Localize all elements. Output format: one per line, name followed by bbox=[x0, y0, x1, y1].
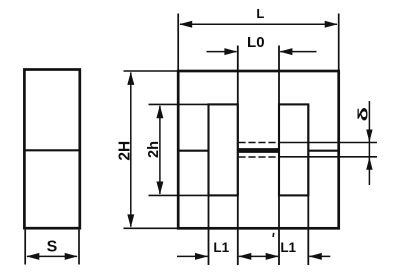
svg-text:L0: L0 bbox=[247, 34, 265, 51]
svg-text:L1: L1 bbox=[280, 240, 296, 255]
svg-text:2h: 2h bbox=[146, 141, 162, 158]
svg-text:L: L bbox=[256, 6, 264, 21]
svg-text:S: S bbox=[47, 239, 58, 256]
svg-text:2H: 2H bbox=[116, 141, 133, 161]
svg-text:δ: δ bbox=[354, 107, 370, 122]
svg-text:L1: L1 bbox=[213, 240, 229, 255]
